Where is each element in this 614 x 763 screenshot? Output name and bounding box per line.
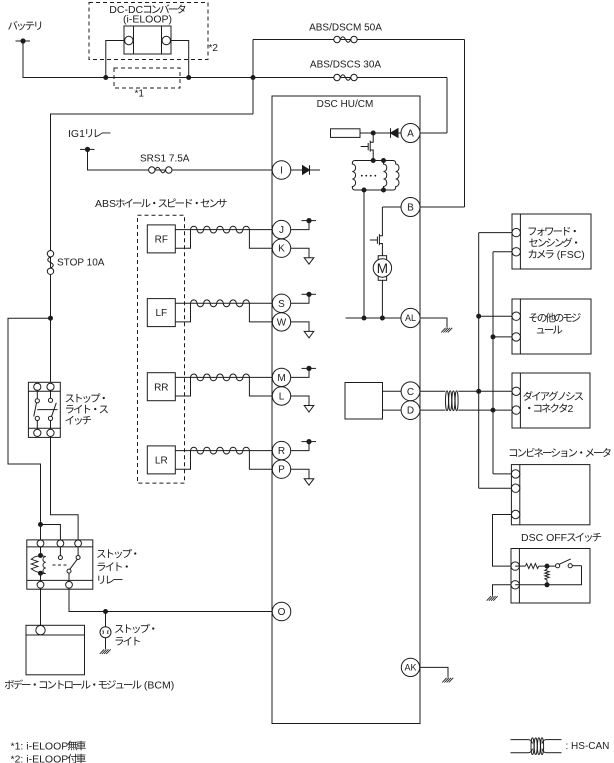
wire ABS/DSCS 30A line bbox=[253, 77, 447, 79]
footnote *2 bbox=[11, 754, 86, 763]
label stop light relay line3 bbox=[98, 576, 122, 584]
svg-text:SRS1 7.5A: SRS1 7.5A bbox=[140, 154, 190, 165]
svg-text:O: O bbox=[278, 607, 286, 618]
wire AK to ground bbox=[420, 667, 448, 677]
footnote *1 bbox=[11, 741, 86, 753]
junction relay coil top bbox=[38, 553, 43, 558]
wire RR signal bbox=[175, 376, 272, 378]
dashed box *2 (i-ELOOP variant) bbox=[89, 3, 208, 60]
wire RF return bbox=[175, 230, 190, 249]
label BCM bbox=[5, 680, 175, 692]
junction coil bottom right bbox=[381, 188, 386, 193]
wire CAN-H vertical bus bbox=[478, 233, 480, 489]
junction bbox=[103, 75, 108, 80]
MOSFET valve driver bbox=[361, 133, 374, 161]
legend twisted pair bbox=[531, 738, 544, 755]
label DC-DC converter bbox=[109, 4, 185, 16]
label stop light switch line3 bbox=[65, 416, 91, 425]
terminal B bbox=[401, 198, 420, 217]
wire to relay contact terminal bbox=[41, 525, 61, 544]
junction bbox=[371, 131, 376, 136]
solenoid valve coils bbox=[352, 161, 399, 191]
svg-text:I: I bbox=[280, 166, 283, 177]
svg-text:ABS: ABS bbox=[95, 198, 116, 210]
terminal S bbox=[272, 294, 290, 312]
wire RF return to K bbox=[249, 230, 272, 249]
CAN transceiver box bbox=[345, 383, 383, 420]
wire LR signal bbox=[175, 450, 272, 452]
label stop light relay line2 bbox=[97, 562, 127, 571]
terminal J bbox=[272, 220, 290, 238]
IG1 relay B+ tap bbox=[80, 147, 95, 152]
wire to diagnosis pin2 bbox=[493, 409, 512, 411]
stop light switch bbox=[28, 382, 60, 437]
junction bbox=[545, 564, 550, 569]
svg-text:LR: LR bbox=[155, 456, 168, 467]
label diagnosis line1 bbox=[523, 391, 583, 401]
diode at I bbox=[291, 165, 320, 174]
pump motor M bbox=[373, 256, 391, 281]
wire valve return to AL bus bbox=[363, 190, 365, 318]
wire LR return bbox=[175, 451, 190, 470]
wire to D bbox=[383, 409, 402, 411]
junction coil bottom left bbox=[362, 188, 367, 193]
wire 30A down to A bbox=[446, 78, 448, 134]
fuse SRS1 7.5A bbox=[149, 167, 172, 173]
wire motor to AL bus bbox=[381, 280, 383, 318]
wire switch to relay bbox=[51, 437, 79, 544]
label diagnosis line2 bbox=[528, 403, 573, 415]
wire branch to stop light relay coil bbox=[8, 318, 51, 543]
wire lamp to ground bbox=[105, 638, 107, 649]
svg-text:AK: AK bbox=[404, 663, 416, 673]
wheel speed sensor LF bbox=[147, 299, 175, 327]
junction stop light bbox=[103, 609, 108, 614]
junction bbox=[251, 75, 256, 80]
wire CAN-L vertical bus bbox=[492, 252, 494, 474]
wire P to ground bbox=[291, 469, 309, 479]
battery B+ tap bbox=[16, 38, 31, 43]
label stop light switch line2 bbox=[66, 405, 108, 414]
svg-text:2: 2 bbox=[568, 403, 574, 415]
fuse ABS/DSCS 30A bbox=[334, 74, 357, 80]
stop light lamp bbox=[100, 627, 111, 638]
svg-text:A: A bbox=[407, 129, 414, 140]
junction CAN-L bbox=[491, 408, 496, 413]
svg-text:P: P bbox=[278, 465, 285, 476]
label DSC OFF switch bbox=[521, 532, 601, 544]
dashed sensor group box bbox=[138, 215, 185, 483]
DSC OFF switch box bbox=[511, 549, 590, 604]
terminal P bbox=[272, 460, 290, 478]
terminal AK bbox=[401, 658, 419, 676]
wire battery feed to junction bbox=[23, 41, 253, 78]
svg-text:DSC HU/CM: DSC HU/CM bbox=[317, 99, 374, 110]
wire to combination meter pin1 bbox=[493, 473, 511, 475]
ground DSC OFF switch bbox=[487, 596, 498, 601]
svg-text:S: S bbox=[278, 299, 285, 310]
terminal D bbox=[401, 401, 420, 420]
wire LR return to P bbox=[249, 451, 272, 470]
wire S to B+ bbox=[291, 294, 309, 303]
twisted wire LF bbox=[191, 300, 250, 307]
terminal O bbox=[272, 602, 291, 621]
wire to other module pin2 bbox=[493, 336, 512, 338]
wire relay to terminal O bbox=[69, 588, 272, 611]
label (i-ELOOP) bbox=[123, 14, 172, 26]
wire to combination meter pin2 bbox=[479, 487, 512, 489]
wire LF return to W bbox=[249, 303, 272, 322]
B+ tap S bbox=[302, 292, 317, 297]
svg-text:J: J bbox=[279, 225, 284, 236]
DSC OFF switch internals bbox=[515, 559, 581, 585]
label stop light line1 bbox=[115, 624, 154, 634]
wire to diagnosis pin1 bbox=[479, 390, 512, 392]
junction bbox=[186, 75, 191, 80]
label ABS wheel speed sensor bbox=[95, 198, 227, 210]
terminal K bbox=[272, 239, 290, 257]
svg-text:W: W bbox=[277, 317, 287, 328]
twisted pair HS-CAN bbox=[446, 391, 459, 411]
relay contact bbox=[58, 547, 80, 582]
terminal C bbox=[401, 382, 420, 401]
diagnosis connector 2 box bbox=[512, 373, 590, 428]
wire DC-DC left lead bbox=[106, 41, 124, 78]
B+ tap R bbox=[302, 439, 317, 444]
wire into terminal B bbox=[420, 206, 465, 208]
terminal R bbox=[272, 441, 290, 459]
fuse STOP 10A bbox=[47, 251, 53, 275]
svg-text:RR: RR bbox=[154, 382, 168, 393]
DSC HU/CM module box bbox=[272, 96, 420, 724]
wire ABS/DSCM 50A line bbox=[253, 39, 465, 41]
svg-text:ABS/DSCS 30A: ABS/DSCS 30A bbox=[310, 60, 381, 71]
junction bbox=[380, 316, 385, 321]
terminal I bbox=[272, 161, 291, 180]
label IG1 relay bbox=[68, 128, 110, 140]
junction bbox=[545, 582, 550, 587]
wire RR return to L bbox=[249, 377, 272, 396]
wire into terminal A bbox=[420, 132, 447, 134]
svg-text:*2: i-ELOOP: *2: i-ELOOP bbox=[11, 754, 69, 763]
forward sensing camera (FSC) box bbox=[512, 214, 591, 269]
label other module line1 bbox=[529, 313, 580, 323]
wire RF signal bbox=[175, 229, 272, 231]
AL internal bus bbox=[346, 317, 402, 319]
wire W to ground bbox=[291, 322, 309, 332]
MOSFET motor driver bbox=[370, 207, 383, 256]
wheel speed sensor RR bbox=[147, 373, 175, 401]
svg-text:RF: RF bbox=[155, 235, 168, 246]
combination meter box bbox=[511, 465, 590, 525]
junction coil top right bbox=[381, 158, 386, 163]
wire LF return bbox=[175, 303, 190, 322]
dashed box *1 (no i-ELOOP variant) bbox=[114, 68, 180, 88]
DC-DC converter component box bbox=[124, 26, 171, 54]
twisted wire LR bbox=[191, 447, 250, 454]
wheel speed sensor RF bbox=[147, 225, 175, 253]
wire STOP feed bbox=[51, 114, 254, 382]
fuse ABS/DSCM 50A bbox=[334, 36, 357, 42]
terminal L bbox=[272, 387, 290, 405]
label other module line2 bbox=[537, 326, 562, 334]
terminal A bbox=[401, 124, 420, 143]
wire DC-DC right lead bbox=[171, 41, 189, 78]
svg-text:*1: i-ELOOP: *1: i-ELOOP bbox=[11, 741, 69, 753]
wire IG1 to terminal I bbox=[88, 149, 273, 170]
svg-text:*2: *2 bbox=[209, 43, 219, 54]
svg-text:AL: AL bbox=[405, 313, 416, 323]
wire to FSC pin2 bbox=[493, 251, 512, 253]
wire DSC OFF to ground bbox=[493, 585, 512, 596]
ground P bbox=[304, 479, 314, 486]
stop light relay bbox=[27, 540, 93, 589]
ground L bbox=[304, 406, 314, 413]
wire combination meter to DSC OFF switch bbox=[493, 515, 512, 567]
wire L to ground bbox=[291, 396, 309, 406]
svg-text:K: K bbox=[278, 244, 285, 255]
ground K bbox=[304, 258, 314, 265]
relay actuation dashed link bbox=[53, 564, 67, 566]
wire to C bbox=[383, 390, 402, 392]
svg-text:IG1: IG1 bbox=[68, 128, 85, 140]
svg-text:(i-ELOOP): (i-ELOOP) bbox=[123, 14, 172, 26]
label combination meter bbox=[510, 448, 611, 457]
svg-text:D: D bbox=[407, 406, 414, 417]
B+ tap J bbox=[302, 218, 317, 223]
label stop light relay line1 bbox=[97, 549, 136, 559]
wire LF signal bbox=[175, 302, 272, 304]
twisted wire RR bbox=[191, 374, 250, 381]
terminal W bbox=[272, 313, 290, 331]
resistor (internal) bbox=[331, 129, 361, 138]
svg-text:*1: *1 bbox=[135, 89, 145, 100]
wire resistor to diode bbox=[360, 132, 391, 134]
wire RR return bbox=[175, 377, 190, 396]
junction bbox=[491, 334, 496, 339]
wire to other module pin1 bbox=[479, 315, 512, 317]
wire CAN-H cont bbox=[458, 390, 478, 392]
label FSC line1 bbox=[529, 227, 576, 236]
svg-text:B: B bbox=[407, 203, 414, 214]
label stop light line2 bbox=[115, 637, 139, 646]
wire CAN-L bbox=[420, 409, 445, 411]
svg-text:L: L bbox=[279, 392, 285, 403]
svg-text:(BCM): (BCM) bbox=[141, 680, 174, 692]
svg-text:(FSC): (FSC) bbox=[554, 249, 585, 261]
body control module (BCM) bbox=[26, 625, 85, 675]
wire vertical feed bus bbox=[252, 40, 254, 115]
label FSC line3 bbox=[529, 249, 585, 261]
wheel speed sensor LR bbox=[147, 446, 175, 474]
svg-text:LF: LF bbox=[155, 308, 167, 319]
wire AL to ground bbox=[420, 318, 447, 328]
ground W bbox=[304, 331, 314, 338]
junction CAN-H bbox=[476, 389, 481, 394]
svg-text:: HS-CAN: : HS-CAN bbox=[566, 741, 610, 752]
twisted wire RF bbox=[191, 226, 250, 233]
junction coil top left bbox=[371, 158, 376, 163]
wire to stop light bbox=[105, 612, 107, 627]
terminal AL bbox=[401, 308, 420, 327]
svg-text:ABS/DSCM 50A: ABS/DSCM 50A bbox=[309, 23, 382, 34]
label stop light switch line1 bbox=[66, 393, 105, 403]
wire R to B+ bbox=[291, 442, 309, 451]
wire B to motor MOSFET bbox=[382, 206, 401, 208]
relay coil bbox=[31, 547, 46, 582]
ground AK bbox=[442, 678, 453, 683]
label battery bbox=[8, 21, 41, 30]
wire CAN-H bbox=[420, 390, 445, 392]
wire M to B+ bbox=[291, 368, 309, 377]
wire to FSC pin1 bbox=[479, 232, 512, 234]
junction bbox=[38, 522, 43, 527]
HS-CAN legend symbol bbox=[511, 740, 562, 753]
svg-text:STOP 10A: STOP 10A bbox=[57, 258, 105, 269]
svg-text:M: M bbox=[277, 373, 285, 384]
wire relay to BCM bbox=[40, 588, 42, 626]
terminal M bbox=[272, 368, 290, 386]
junction bbox=[48, 316, 53, 321]
junction bbox=[362, 316, 367, 321]
svg-text:M: M bbox=[377, 261, 388, 276]
junction bbox=[476, 314, 481, 319]
ground AL bbox=[441, 328, 452, 333]
junction relay coil bottom bbox=[38, 571, 43, 576]
wire J to B+ bbox=[291, 221, 309, 230]
label FSC line2 bbox=[529, 238, 577, 248]
svg-text:DSC OFF: DSC OFF bbox=[521, 532, 567, 544]
B+ tap M bbox=[302, 366, 317, 371]
wire K to ground bbox=[291, 248, 309, 258]
wire CAN-L cont bbox=[458, 409, 493, 411]
svg-text:C: C bbox=[407, 387, 414, 398]
other modules box bbox=[512, 299, 591, 354]
diode at A bbox=[391, 128, 401, 137]
ground stop light bbox=[100, 649, 111, 654]
wire 50A down to B bbox=[464, 40, 466, 208]
svg-text:R: R bbox=[278, 446, 285, 457]
